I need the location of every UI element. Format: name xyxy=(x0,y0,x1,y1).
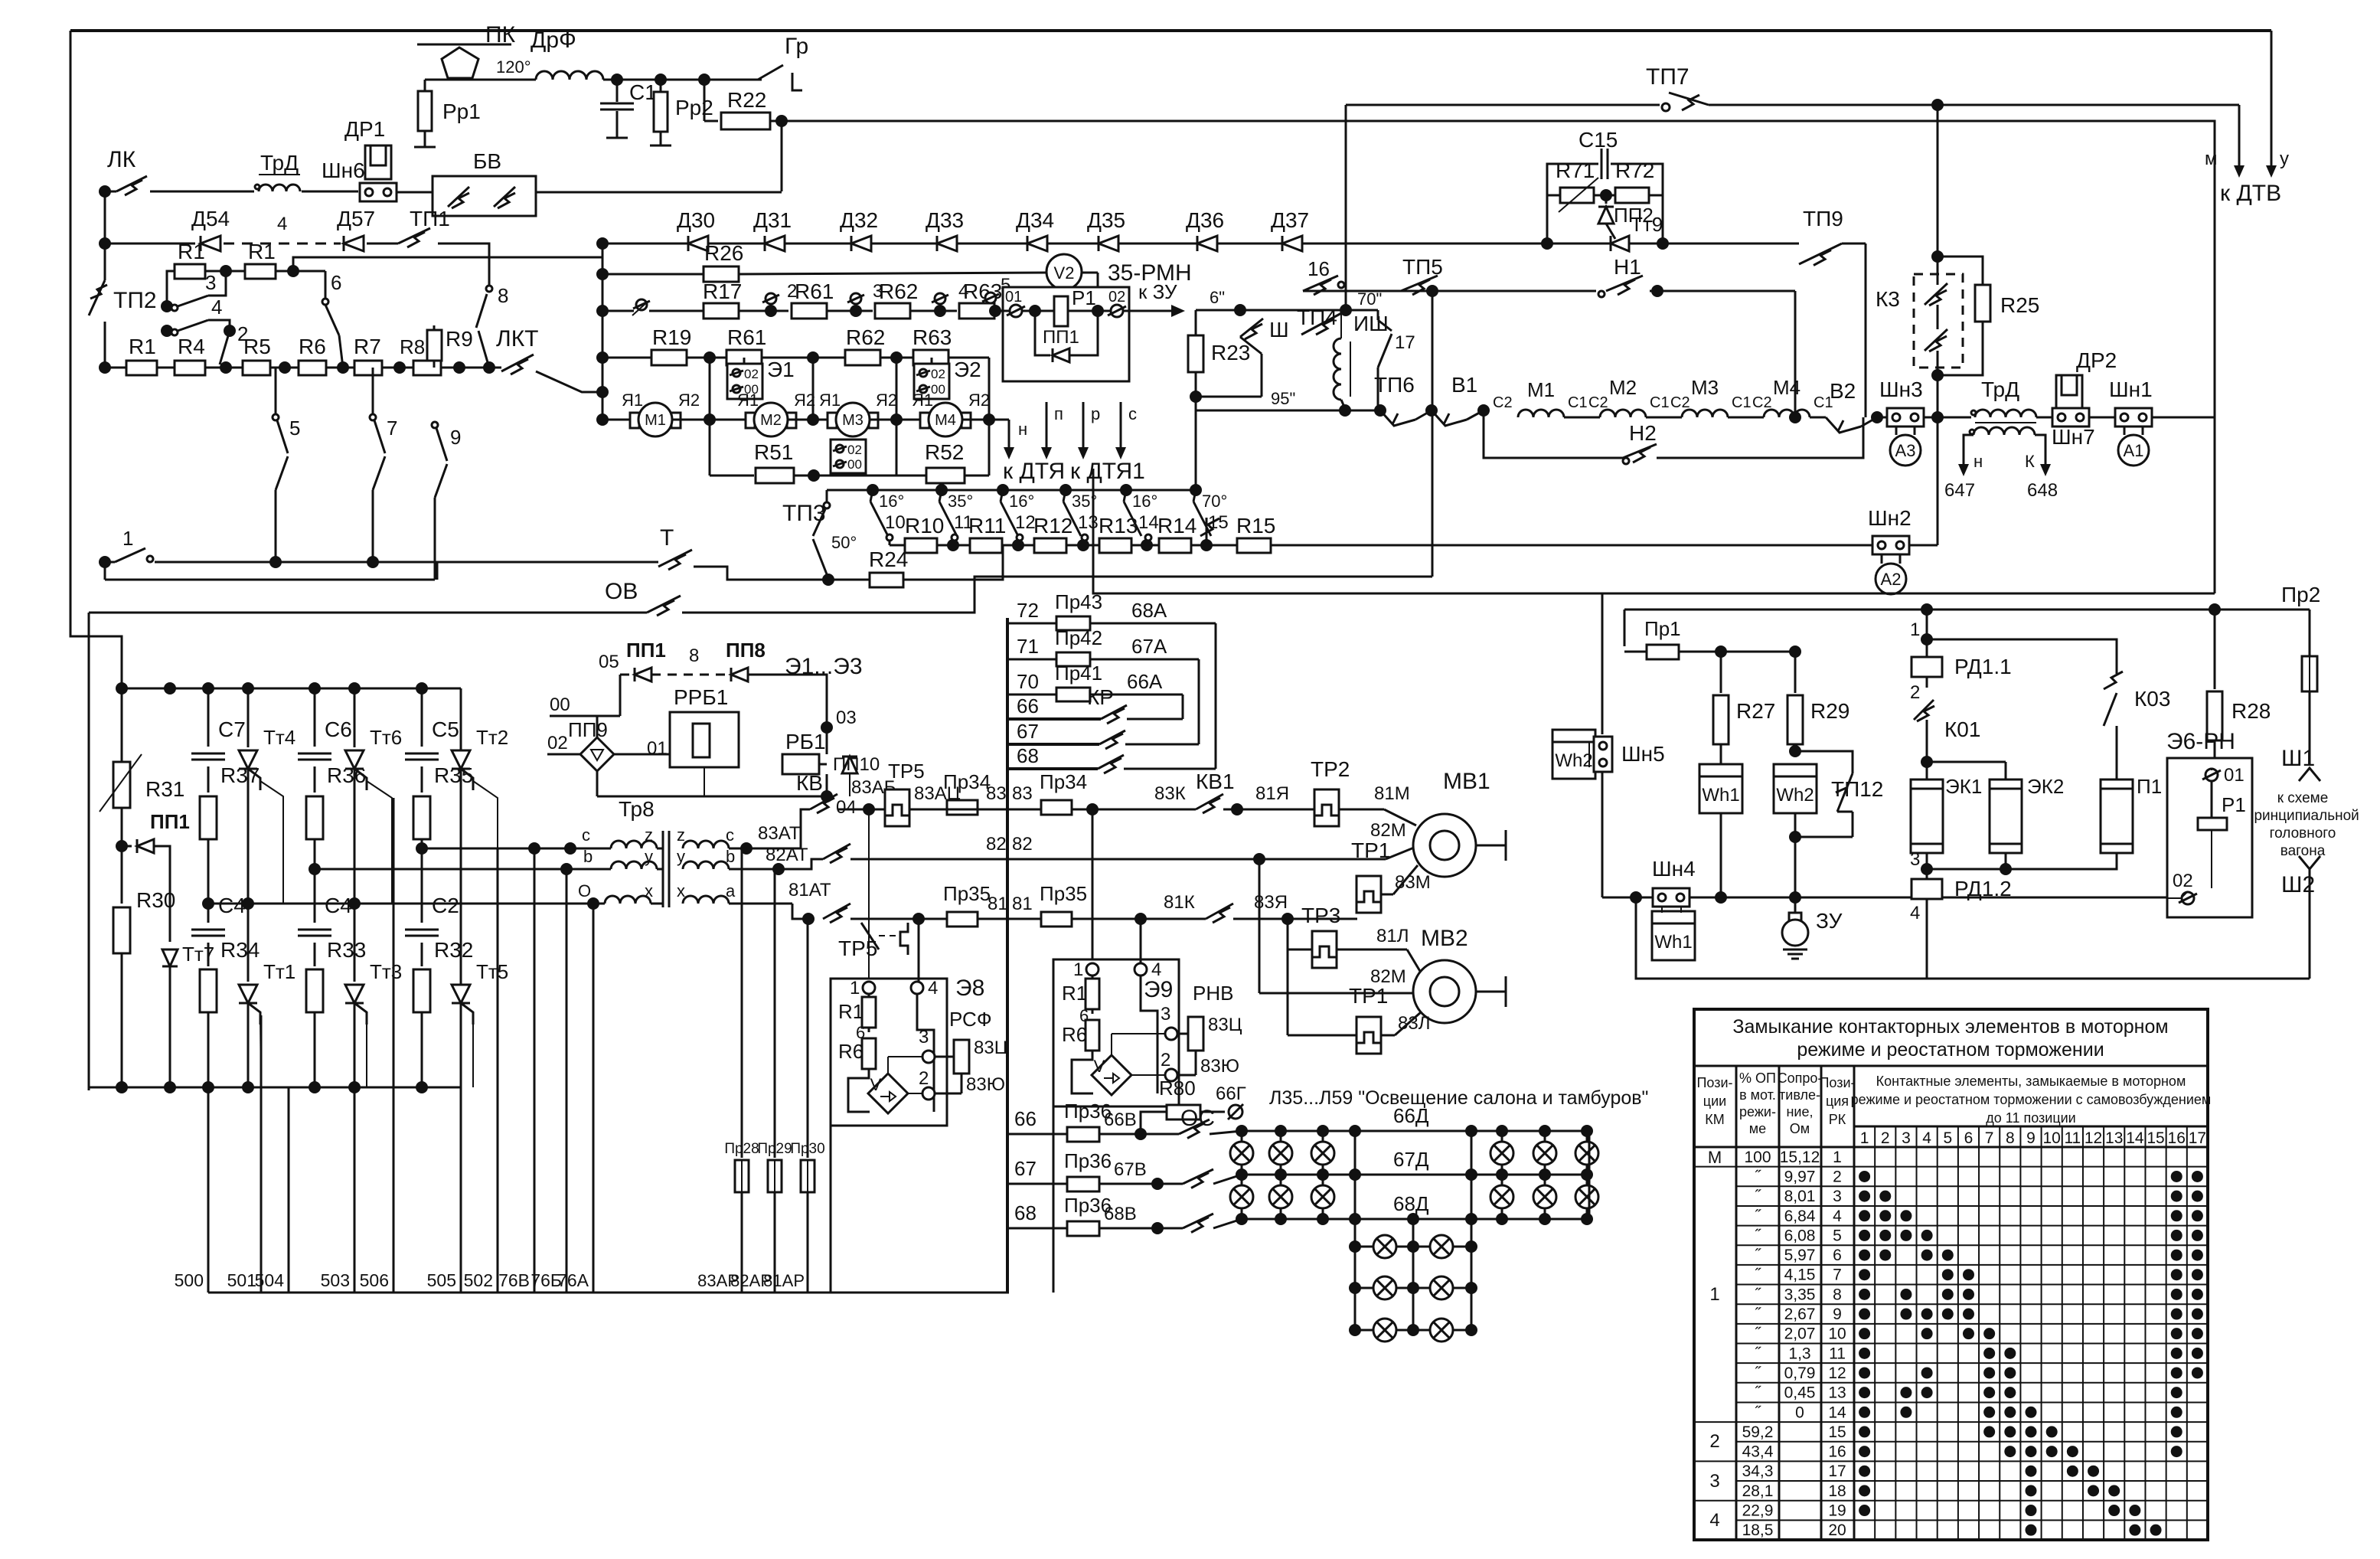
svg-text:10: 10 xyxy=(2042,1129,2060,1147)
svg-text:3: 3 xyxy=(1709,1471,1719,1492)
svg-text:66Д: 66Д xyxy=(1393,1104,1429,1127)
svg-text:ТР1: ТР1 xyxy=(1349,984,1388,1008)
svg-text:R10: R10 xyxy=(905,514,944,538)
resistor R6 Э9 xyxy=(1086,1020,1099,1051)
thyristor Тт2 xyxy=(460,688,462,747)
wire line 68 xyxy=(1007,767,1098,770)
svg-text:R61: R61 xyxy=(795,279,834,303)
svg-text:Шн4: Шн4 xyxy=(1652,857,1696,881)
svg-text:Пр42: Пр42 xyxy=(1055,626,1102,649)
svg-text:35°: 35° xyxy=(948,492,973,511)
svg-text:8: 8 xyxy=(689,645,699,666)
resistor R24 xyxy=(828,579,870,581)
wire drop 502 xyxy=(497,848,499,1293)
switch 13 xyxy=(1059,484,1072,496)
wire lower grid row 1682 xyxy=(1355,1287,1471,1289)
lamp col x1728 upper xyxy=(1322,1131,1324,1219)
svg-text:81Я: 81Я xyxy=(1255,783,1289,804)
wire top bus thyristor net xyxy=(122,688,461,690)
svg-text:R36: R36 xyxy=(327,763,366,787)
svg-text:04: 04 xyxy=(836,797,857,818)
svg-text:Шн5: Шн5 xyxy=(1621,742,1665,766)
svg-text:С7: С7 xyxy=(218,717,246,741)
table number row line xyxy=(1854,1126,2208,1128)
resistor R25 loop xyxy=(1938,257,1983,285)
svg-text:Д34: Д34 xyxy=(1016,208,1054,232)
switch ЛКТ xyxy=(489,367,501,369)
wire 82 to МВ1 xyxy=(1259,858,1386,861)
svg-text:К03: К03 xyxy=(2134,687,2170,711)
switch К3 lower xyxy=(1925,329,1947,351)
svg-text:ЭК1: ЭК1 xyxy=(1945,775,1982,798)
svg-text:R6: R6 xyxy=(838,1040,864,1063)
resistor R6 xyxy=(299,361,326,375)
bridge V Э8 xyxy=(848,1069,870,1112)
junction bottom bus x463 xyxy=(348,1081,361,1093)
motor М1 xyxy=(630,413,639,428)
junction M4 out xyxy=(961,419,1009,421)
svg-text:Э2: Э2 xyxy=(954,358,981,381)
svg-text:С2: С2 xyxy=(1493,394,1513,411)
switch 9 hanger xyxy=(432,422,438,428)
svg-text:РБ1: РБ1 xyxy=(785,730,826,753)
svg-text:ОС: ОС xyxy=(1180,1106,1215,1131)
svg-text:Н2: Н2 xyxy=(1629,421,1657,445)
thermal ТР1 a xyxy=(1357,876,1381,913)
lamp col x1673 upper xyxy=(1280,1131,1282,1219)
svg-text:4: 4 xyxy=(1151,959,1161,980)
svg-text:Ом: Ом xyxy=(1790,1121,1810,1136)
svg-text:к ДТЯ: к ДТЯ xyxy=(1003,459,1065,484)
arrow п xyxy=(1046,402,1048,449)
svg-text:Д32: Д32 xyxy=(840,208,878,232)
svg-text:С1: С1 xyxy=(1732,394,1752,411)
wire 83Л МВ2 xyxy=(1381,1034,1395,1037)
ammeter А1 xyxy=(2124,427,2126,435)
svg-text:R35: R35 xyxy=(434,763,473,787)
wire 83М to МВ1 xyxy=(1381,894,1393,896)
svg-text:R62: R62 xyxy=(879,279,918,303)
table contact column lines xyxy=(1874,1126,1876,1540)
svg-text:10: 10 xyxy=(885,512,906,533)
resistor R33 xyxy=(314,943,316,966)
junction К01 xyxy=(1921,756,1933,768)
svg-text:67: 67 xyxy=(1017,720,1039,743)
svg-text:С5: С5 xyxy=(432,717,459,741)
contact 1 Э8 xyxy=(863,982,875,994)
svg-text:М3: М3 xyxy=(842,412,864,429)
svg-text:В1: В1 xyxy=(1451,373,1477,397)
resistor R63 lower xyxy=(913,350,948,365)
switch 14 xyxy=(1120,484,1132,496)
svg-text:К: К xyxy=(2025,452,2035,471)
svg-text:c: c xyxy=(582,825,590,845)
svg-text:Н1: Н1 xyxy=(1614,255,1641,279)
diode Д32 xyxy=(851,236,871,251)
motor М2 xyxy=(746,413,755,428)
svg-text:R31: R31 xyxy=(145,777,184,801)
svg-text:Сопро-: Сопро- xyxy=(1778,1070,1823,1086)
svg-text:18: 18 xyxy=(1828,1482,1846,1500)
resistor R37 xyxy=(207,766,210,793)
resistor R80 xyxy=(1141,1112,1167,1134)
table row lines xyxy=(1736,1166,2208,1168)
svg-text:5: 5 xyxy=(1833,1227,1842,1244)
svg-text:М1: М1 xyxy=(1527,378,1555,401)
wire rail 66Д xyxy=(1242,1130,1589,1132)
svg-text:головного: головного xyxy=(2270,825,2336,842)
wire ТрД to ДР2 xyxy=(2036,417,2052,419)
inductor ДрФ xyxy=(536,71,603,80)
wire O line xyxy=(208,903,605,905)
junction R row left xyxy=(99,361,111,374)
junction top bus x324 xyxy=(242,682,254,695)
svg-text:М2: М2 xyxy=(760,412,782,429)
junction К3 bottom xyxy=(1931,369,1944,381)
relay РСФ xyxy=(954,1040,969,1074)
wire БВ-Гр column xyxy=(536,191,782,194)
svg-text:у: у xyxy=(2280,149,2289,169)
thermal ТР1 b xyxy=(1357,1017,1381,1054)
svg-text:2,07: 2,07 xyxy=(1784,1325,1816,1343)
fuse Пр36 c xyxy=(1067,1221,1099,1236)
svg-text:R19: R19 xyxy=(652,325,691,349)
svg-text:4: 4 xyxy=(1833,1208,1842,1225)
svg-text:81АТ: 81АТ xyxy=(788,880,831,900)
svg-text:С4: С4 xyxy=(325,894,352,917)
resistor R1 upper-a xyxy=(175,264,205,279)
switch Н1 xyxy=(1606,276,1643,291)
resistor R11 xyxy=(970,538,1002,553)
wire switch rail xyxy=(827,489,1196,492)
arrow с xyxy=(1120,402,1122,449)
element П1 xyxy=(2101,779,2133,853)
fan МВ2 xyxy=(1413,960,1476,1023)
svg-text:н: н xyxy=(1018,420,1027,439)
svg-text:М4: М4 xyxy=(935,412,956,429)
junction ИШ bottom xyxy=(1339,404,1351,417)
generator ЗУ xyxy=(1794,897,1797,913)
svg-text:ции: ции xyxy=(1703,1093,1726,1109)
wire V2 to P1 box xyxy=(1082,272,1098,274)
switch 11 xyxy=(935,484,948,496)
svg-text:R80: R80 xyxy=(1159,1077,1196,1100)
resistor R12 xyxy=(1034,538,1066,553)
switch 67 xyxy=(1157,1183,1183,1185)
junction dots x1622 xyxy=(1236,1125,1248,1137)
relay РРБ1 box xyxy=(670,712,739,767)
wire Э8 bottom xyxy=(830,1126,832,1293)
shunt Шн7 xyxy=(2052,408,2089,427)
switch ЛК xyxy=(105,191,116,193)
svg-text:ПП1: ПП1 xyxy=(626,639,666,662)
svg-text:Э8: Э8 xyxy=(955,976,984,1001)
svg-text:9: 9 xyxy=(450,426,461,449)
relay РБ1 xyxy=(826,727,828,754)
motor М3 xyxy=(828,413,837,428)
svg-text:83Я: 83Я xyxy=(1254,892,1288,913)
svg-text:71: 71 xyxy=(1017,635,1039,658)
svg-text:3: 3 xyxy=(1910,849,1920,870)
battery Wh1 xyxy=(1699,764,1742,813)
svg-text:R12: R12 xyxy=(1033,514,1072,538)
junction R51 out xyxy=(794,475,831,477)
wire left jog xyxy=(70,636,122,688)
diode Д35 xyxy=(1099,236,1118,251)
vertical M junctions xyxy=(709,358,711,420)
svg-text:83Ц: 83Ц xyxy=(1208,1015,1242,1035)
wire right edge thy net xyxy=(460,688,462,1087)
wire R24 up xyxy=(903,545,1003,580)
wire 6 top xyxy=(325,271,327,299)
svg-text:Шн7: Шн7 xyxy=(2052,425,2095,449)
svg-text:R27: R27 xyxy=(1736,699,1775,723)
svg-text:Тр8: Тр8 xyxy=(619,797,655,821)
wire to ТП9 xyxy=(1661,243,1799,245)
resistor R61 xyxy=(792,303,827,319)
fuse Пр36 b xyxy=(1067,1177,1099,1191)
wire drop 76А xyxy=(593,904,595,1293)
wire bus to M1 xyxy=(602,419,639,421)
svg-text:02: 02 xyxy=(2173,871,2193,891)
svg-text:6: 6 xyxy=(1833,1247,1842,1264)
wire Н2 loop xyxy=(1484,410,1623,458)
arrow К 648 xyxy=(2045,452,2047,466)
switch ТП7 xyxy=(1660,98,1709,112)
contact 2 Э9 xyxy=(1131,1074,1165,1076)
svg-text:502: 502 xyxy=(464,1270,493,1290)
svg-text:x: x xyxy=(677,881,685,900)
block Э1 xyxy=(727,364,762,399)
svg-text:83: 83 xyxy=(1012,783,1033,804)
contact 02 xyxy=(1098,310,1111,312)
diode Д33 xyxy=(937,236,957,251)
svg-text:17: 17 xyxy=(1828,1463,1846,1480)
junction R29 top xyxy=(1789,645,1801,658)
junction R26 row xyxy=(596,268,609,280)
wire РБ1 bottom xyxy=(597,796,827,798)
fuse Пр36 a xyxy=(1067,1127,1099,1142)
svg-text:6: 6 xyxy=(1964,1129,1974,1147)
relay РД1.1 xyxy=(1926,639,1928,657)
svg-text:67А: 67А xyxy=(1131,635,1167,658)
svg-text:Пр35: Пр35 xyxy=(943,882,991,905)
wire battery box left xyxy=(1601,593,1604,734)
arrow н к ДТЯ xyxy=(1008,420,1010,449)
svg-text:5,97: 5,97 xyxy=(1784,1247,1816,1264)
junction dots x2073 xyxy=(1581,1125,1593,1137)
wire x1871 column xyxy=(1432,291,1434,577)
switch 1 xyxy=(105,561,115,564)
fuse Пр2 xyxy=(2215,609,2310,611)
junction top bus x159 xyxy=(116,682,128,695)
svg-text:13: 13 xyxy=(1078,512,1099,533)
junction ЛК left xyxy=(99,185,111,198)
svg-text:Я1: Я1 xyxy=(737,391,759,410)
junction R1ab xyxy=(220,265,232,277)
wire 7 down xyxy=(373,456,385,490)
svg-text:к ДТВ: к ДТВ xyxy=(2220,181,2281,206)
svg-text:Я1: Я1 xyxy=(622,391,643,410)
switch В1 xyxy=(1432,410,1467,426)
wire drop 76Б xyxy=(566,869,568,1293)
svg-text:15: 15 xyxy=(1828,1423,1846,1441)
junction M3-M4 xyxy=(869,419,920,421)
block Э3 xyxy=(831,440,866,473)
wire drop 501 xyxy=(260,1015,263,1293)
svg-text:ЭК2: ЭК2 xyxy=(2027,775,2064,798)
wire line 72 xyxy=(1007,623,1058,625)
switch К3 upper xyxy=(1937,257,1939,285)
lamp col x2018 upper xyxy=(1544,1131,1546,1219)
resistor R1 upper-b xyxy=(205,270,245,273)
contact 01 xyxy=(1003,310,1010,312)
capacitor C1 xyxy=(616,80,619,102)
svg-text:83М: 83М xyxy=(1395,872,1431,893)
switch Н2 xyxy=(1623,444,1657,458)
svg-text:R62: R62 xyxy=(846,325,885,349)
wire line 70 xyxy=(1007,694,1058,696)
wire b line xyxy=(315,868,611,871)
resistor Рр2 xyxy=(660,80,662,92)
svg-text:Я2: Я2 xyxy=(678,391,700,410)
element ЭК2 xyxy=(1990,779,2022,853)
svg-text:11: 11 xyxy=(1829,1345,1846,1362)
resistor R1 row xyxy=(105,367,126,369)
wire 81М to МВ1 xyxy=(1339,809,1384,811)
wire 81 right xyxy=(1072,918,1206,920)
svg-text:15: 15 xyxy=(2147,1129,2164,1147)
svg-text:МВ2: МВ2 xyxy=(1421,926,1468,951)
table column line x2324 xyxy=(1778,1066,1781,1540)
junction 6 quote xyxy=(1234,304,1246,316)
svg-text:9: 9 xyxy=(1833,1306,1842,1323)
svg-text:R71: R71 xyxy=(1556,159,1595,182)
junction R71 left xyxy=(1541,237,1553,250)
wire row66 xyxy=(1007,1133,1068,1136)
bridge V Э9 xyxy=(1072,1051,1093,1093)
svg-text:Тт2: Тт2 xyxy=(476,726,508,749)
svg-text:14: 14 xyxy=(1138,512,1159,533)
wire R52 up xyxy=(965,475,989,477)
wire drop 500 xyxy=(207,1087,210,1293)
svg-text:z: z xyxy=(677,825,685,845)
svg-text:16°: 16° xyxy=(879,492,904,511)
svg-text:Д31: Д31 xyxy=(753,208,792,232)
svg-text:ТрД: ТрД xyxy=(1981,377,2019,401)
wire РРБ1 xyxy=(614,753,670,756)
wire 8 to R row xyxy=(478,331,489,368)
wire rail to 02 xyxy=(2182,891,2188,897)
diode Д31 xyxy=(765,236,785,251)
wire lower grid verticals xyxy=(1354,1131,1357,1330)
svg-text:02: 02 xyxy=(1108,289,1125,306)
svg-text:О: О xyxy=(578,881,591,900)
lamp col x1728 lower xyxy=(1311,1185,1334,1208)
svg-text:2: 2 xyxy=(1161,1050,1170,1070)
switch 4 xyxy=(171,329,178,335)
svg-text:С4: С4 xyxy=(218,894,246,917)
thermal ТР5 box xyxy=(885,789,909,826)
transformer ТрД left xyxy=(255,185,260,189)
svg-text:Пр2: Пр2 xyxy=(2281,583,2320,606)
diode ПП1 small xyxy=(122,845,132,848)
svg-text:КР: КР xyxy=(1087,685,1114,709)
svg-text:01: 01 xyxy=(1005,289,1022,306)
svg-text:66: 66 xyxy=(1017,695,1039,717)
svg-text:Э1: Э1 xyxy=(767,358,795,381)
svg-text:3: 3 xyxy=(1833,1188,1842,1205)
svg-text:1: 1 xyxy=(1073,959,1083,980)
switch 81К xyxy=(1206,904,1233,919)
svg-text:501: 501 xyxy=(227,1270,256,1290)
junction 3 xyxy=(827,310,873,312)
capacitor С6 xyxy=(314,688,316,747)
switch Т xyxy=(649,561,658,564)
svg-text:ДрФ: ДрФ xyxy=(531,28,576,53)
svg-text:R61: R61 xyxy=(727,325,766,349)
svg-text:ОВ: ОВ xyxy=(605,579,638,604)
svg-text:43,4: 43,4 xyxy=(1742,1443,1774,1461)
svg-text:81М: 81М xyxy=(1374,783,1410,804)
junction C1 xyxy=(611,74,623,86)
wire c line xyxy=(422,848,611,850)
svg-text:до 11 позиции: до 11 позиции xyxy=(1986,1110,2075,1126)
svg-text:Пр28: Пр28 xyxy=(724,1141,759,1157)
fuse Пр43 xyxy=(1056,616,1090,630)
wire 68А drop xyxy=(1215,623,1217,769)
switch В2 xyxy=(1826,417,1861,433)
svg-text:R28: R28 xyxy=(2231,699,2271,723)
fuse Пр30 column 81АР xyxy=(807,919,809,1158)
svg-text:Шн6: Шн6 xyxy=(322,159,365,182)
svg-text:М3: М3 xyxy=(1691,376,1719,399)
switch 15 xyxy=(1190,484,1202,496)
svg-text:3: 3 xyxy=(1161,1004,1170,1025)
svg-text:4,15: 4,15 xyxy=(1784,1266,1816,1284)
breaker БВ xyxy=(433,176,536,216)
resistor R62 lower xyxy=(845,350,880,365)
svg-text:Ш1: Ш1 xyxy=(2281,746,2315,771)
wire line1 xyxy=(155,561,437,564)
junction top bus x411 xyxy=(309,682,321,695)
junction R19 row xyxy=(596,351,609,364)
resistor R52 xyxy=(896,420,898,476)
svg-text:режи-: режи- xyxy=(1739,1104,1776,1119)
contact 3 Э9 xyxy=(1111,1034,1112,1055)
svg-text:Тт1: Тт1 xyxy=(263,960,295,983)
lamp col x2073 upper xyxy=(1586,1131,1588,1219)
svg-text:Wh2: Wh2 xyxy=(1776,785,1814,806)
switch ОВ xyxy=(89,612,647,614)
junction R5-R6 xyxy=(270,367,299,369)
svg-text:Wh2: Wh2 xyxy=(1555,750,1592,771)
fuse Пр28 column 83АР xyxy=(741,848,743,1158)
svg-text:РК: РК xyxy=(1829,1112,1846,1127)
wire rail 68Д xyxy=(1242,1218,1589,1221)
junction R11-R12 xyxy=(1002,544,1035,547)
svg-text:R29: R29 xyxy=(1810,699,1849,723)
switch ТП12 xyxy=(1795,751,1853,773)
svg-text:С1: С1 xyxy=(1650,394,1670,411)
svg-text:5: 5 xyxy=(1943,1129,1952,1147)
junction R23 bottom xyxy=(1190,391,1202,403)
junction 81АТ xyxy=(729,903,792,905)
svg-text:4: 4 xyxy=(277,214,287,234)
wire К03 branch xyxy=(1927,639,2117,674)
svg-text:Я2: Я2 xyxy=(876,391,897,410)
junction line1 left xyxy=(99,556,111,568)
